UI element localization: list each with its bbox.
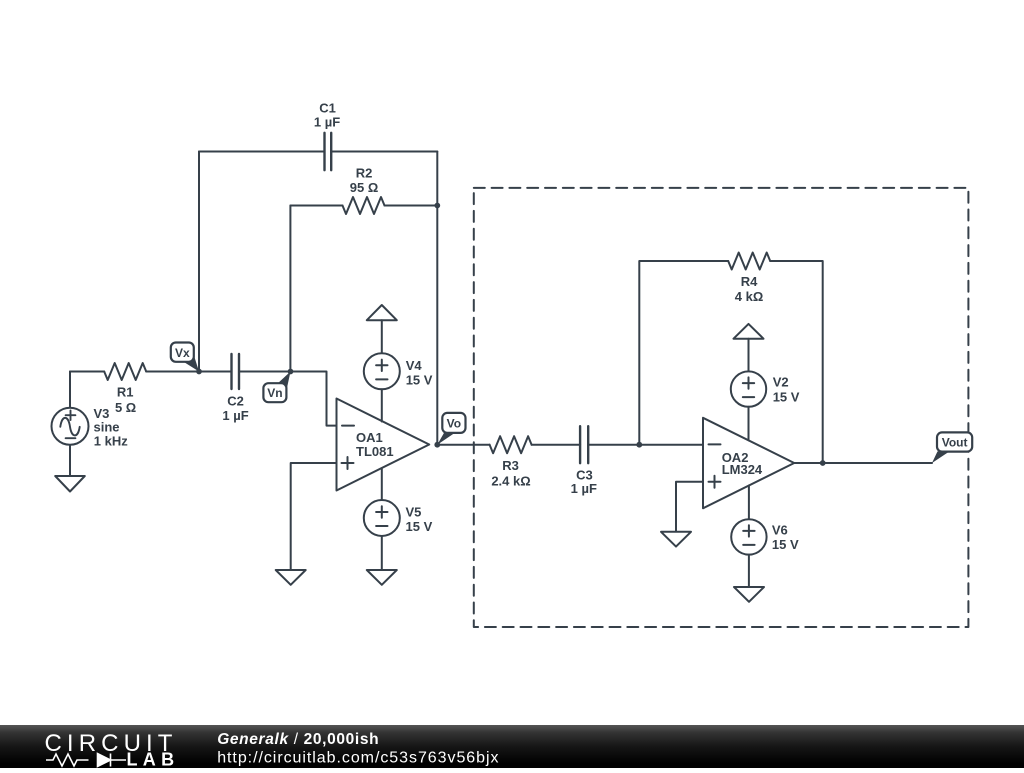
svg-text:4 kΩ: 4 kΩ (735, 289, 764, 304)
svg-text:1 µF: 1 µF (571, 481, 597, 496)
wire C3 to node (588, 444, 639, 446)
svg-text:15 V: 15 V (406, 373, 433, 388)
svg-text:V5: V5 (406, 505, 422, 520)
wire C1 left vertical (198, 152, 200, 372)
wire OA2 output (794, 462, 932, 464)
logo resistor-diode symbol (46, 754, 126, 767)
svg-text:V3: V3 (94, 406, 110, 421)
wire node to OA2 inverting input (639, 444, 703, 446)
node C3/R4 dot (636, 442, 642, 448)
node Vo dot (434, 442, 440, 448)
svg-text:15 V: 15 V (772, 537, 799, 552)
ground V3 (55, 476, 85, 492)
voltage source V6 (748, 486, 750, 520)
power arrow V2 (734, 324, 764, 339)
node Vo flag (437, 413, 465, 445)
wire R3 to C3 (532, 444, 581, 446)
op-amp OA2 (703, 418, 794, 509)
resistor R1 (104, 363, 146, 380)
node Vx flag (171, 343, 199, 372)
resistor R3 (490, 436, 532, 453)
node R2 right dot (434, 203, 440, 209)
svg-text:5 Ω: 5 Ω (115, 400, 136, 415)
node Vx dot (196, 369, 202, 375)
wire Vn to OA1 inverting input (291, 372, 337, 426)
node OA2 output dot (820, 460, 826, 466)
svg-text:C2: C2 (227, 394, 244, 409)
svg-text:15 V: 15 V (773, 390, 800, 405)
svg-text:2.4 kΩ: 2.4 kΩ (491, 473, 530, 488)
svg-text:LAB: LAB (127, 750, 180, 769)
svg-text:Generalk / 20,000ish: Generalk / 20,000ish (217, 731, 379, 748)
svg-text:1 µF: 1 µF (314, 114, 340, 129)
wire OA1 noninverting input to ground (291, 463, 337, 570)
op-amp OA1 (337, 399, 430, 491)
svg-text:Vx: Vx (175, 346, 190, 360)
ground OA2 plus (661, 532, 691, 547)
wire right vertical C1/R2 to output (436, 152, 438, 445)
wire C1 left horizontal (199, 151, 325, 153)
svg-text:15 V: 15 V (406, 519, 433, 534)
svg-text:R4: R4 (741, 274, 758, 289)
ground V6 (734, 587, 764, 602)
svg-text:1 µF: 1 µF (222, 408, 248, 423)
voltage source V2 (731, 371, 766, 406)
wire C1 right (331, 151, 437, 153)
capacitor C3 (580, 426, 588, 463)
svg-text:R1: R1 (117, 384, 134, 399)
wire Vx to C2 (199, 371, 232, 373)
wire R4 loop left (639, 261, 728, 445)
wire R2 left vertical (289, 206, 291, 372)
svg-text:Vn: Vn (267, 386, 282, 400)
wire OA1 output to R3 (437, 444, 489, 446)
node Vn dot (288, 369, 294, 375)
wire R1 to Vx (146, 371, 199, 373)
svg-text:Vout: Vout (942, 435, 968, 449)
wire V3 to R1 (70, 371, 104, 373)
svg-text:R3: R3 (502, 458, 519, 473)
capacitor C1 (325, 133, 332, 170)
ground OA1 plus (276, 570, 306, 585)
svg-text:Vo: Vo (447, 416, 461, 430)
svg-text:1 kHz: 1 kHz (94, 433, 128, 448)
svg-text:C1: C1 (319, 100, 336, 115)
node Vn flag (263, 372, 290, 403)
wire R2 right (385, 205, 438, 207)
resistor R2 (343, 197, 385, 214)
wire OA2 noninverting to ground (676, 482, 703, 532)
svg-text:LM324: LM324 (722, 462, 763, 477)
voltage source V4 (364, 353, 400, 389)
svg-text:TL081: TL081 (356, 444, 394, 459)
svg-text:V6: V6 (772, 523, 788, 538)
svg-text:95 Ω: 95 Ω (350, 180, 379, 195)
voltage source V3 (52, 408, 89, 445)
svg-text:OA1: OA1 (356, 430, 383, 445)
feedback box (dashed) (474, 188, 969, 627)
ground V5 (367, 570, 397, 585)
wire R2 left horizontal (290, 205, 342, 207)
wire V3 top (69, 372, 71, 408)
svg-text:R2: R2 (356, 166, 373, 181)
capacitor C2 (232, 354, 240, 389)
svg-text:V2: V2 (773, 374, 789, 389)
wire R4 loop right (770, 261, 823, 463)
svg-text:http://circuitlab.com/c53s763v: http://circuitlab.com/c53s763v56bjx (217, 749, 499, 766)
power arrow V4 (367, 305, 397, 320)
junction dots (196, 203, 826, 466)
svg-text:V4: V4 (406, 358, 423, 373)
voltage source V5 (381, 469, 383, 500)
resistor R4 (728, 253, 770, 270)
wire V3 bottom (69, 445, 71, 476)
wire C2 to Vn (239, 371, 291, 373)
node Vout flag (932, 432, 972, 463)
